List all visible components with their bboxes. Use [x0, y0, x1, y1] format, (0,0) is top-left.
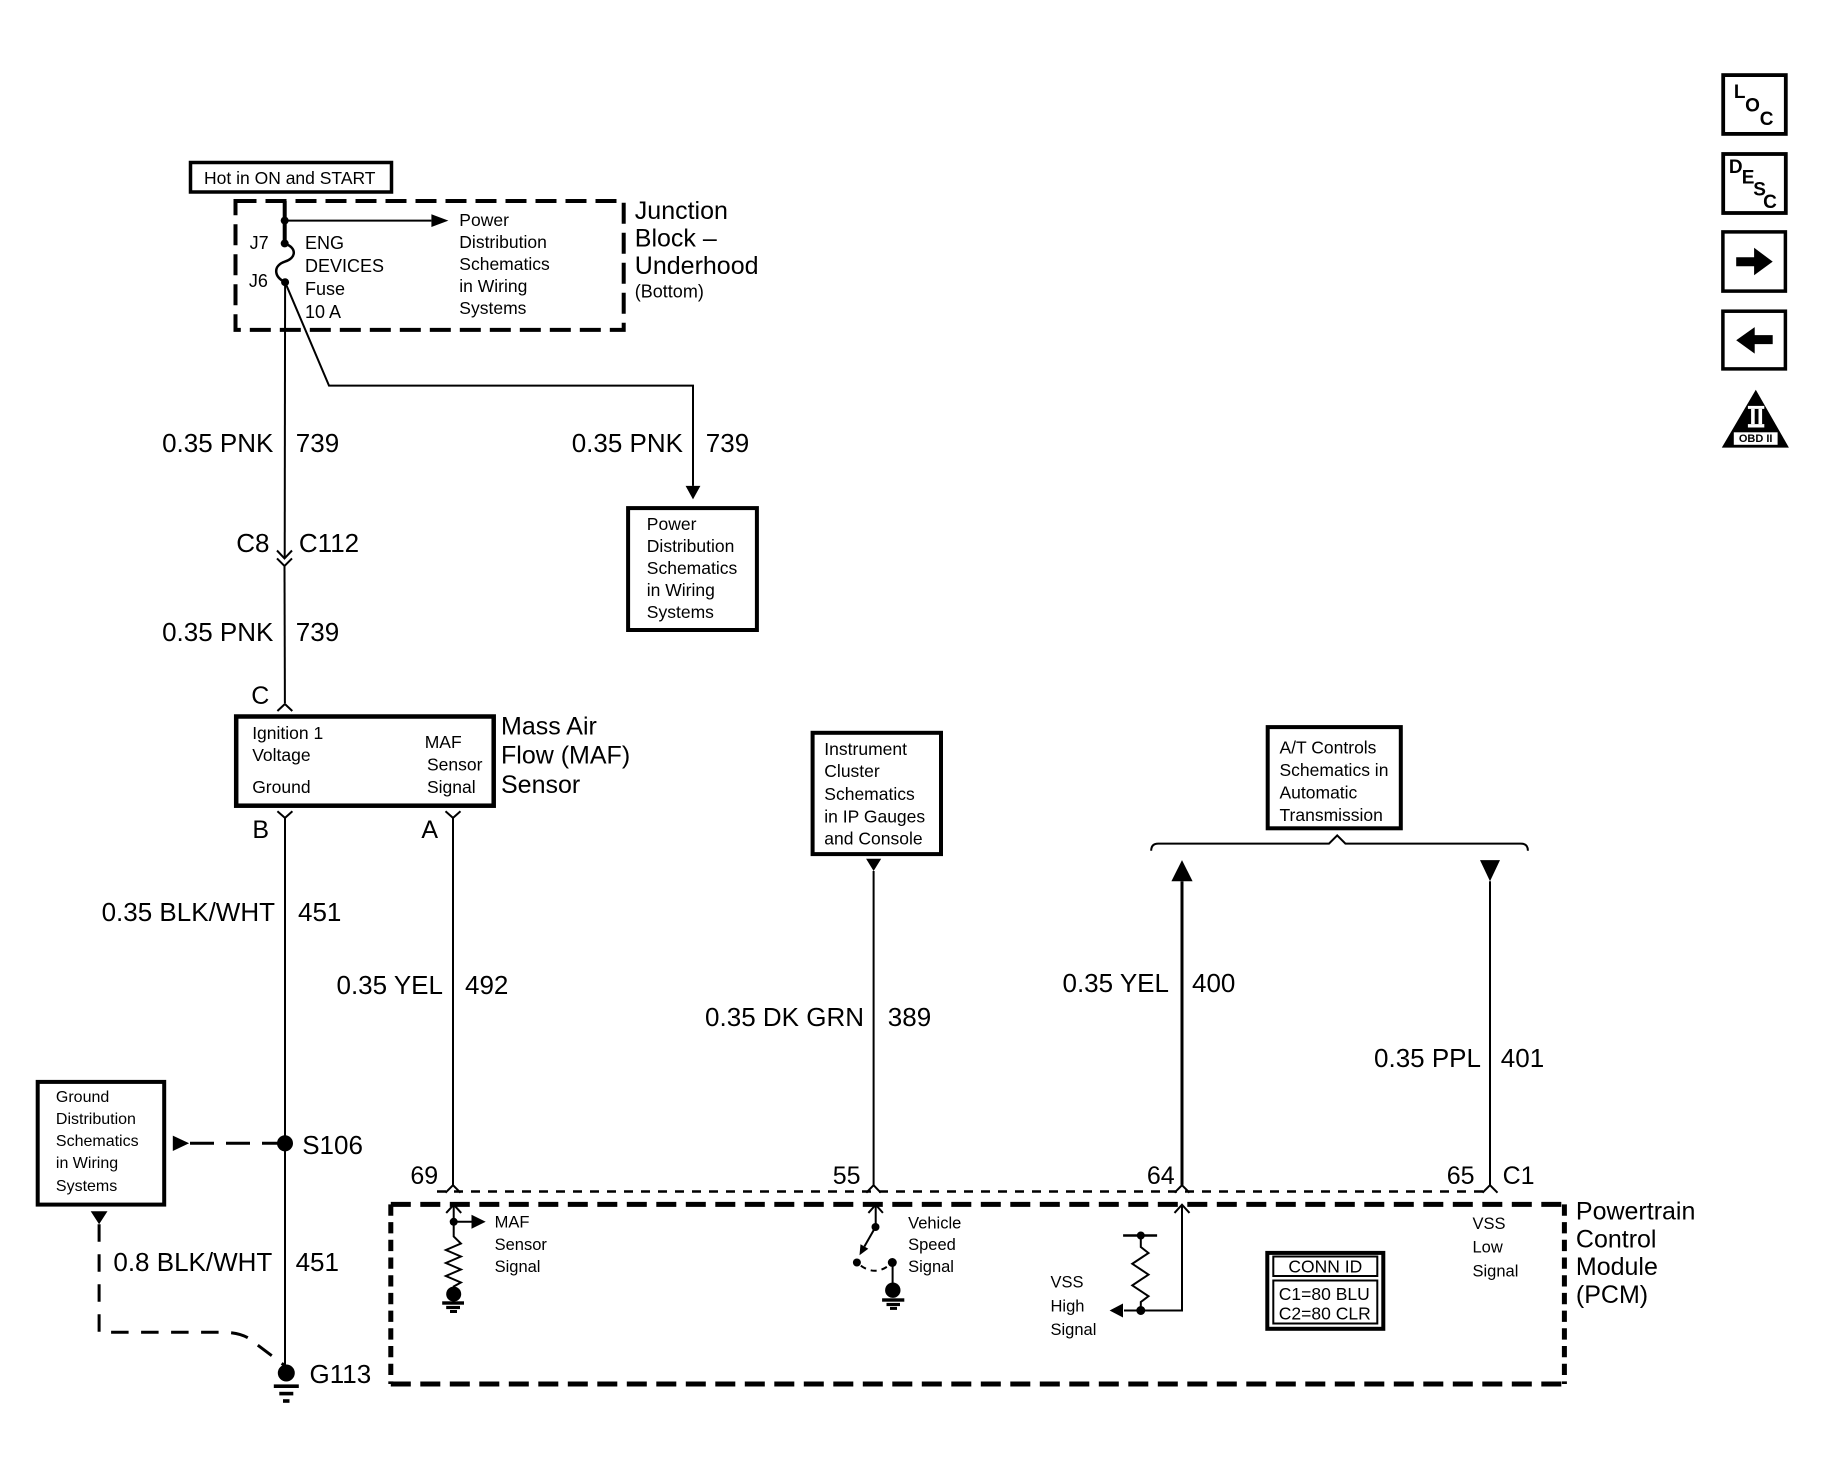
label: 0.35 DK GRN 389	[705, 1002, 931, 1032]
wire: MAF ground B to S106 to G113 (451)	[284, 818, 286, 1369]
svg-text:0.35 DK GRN: 0.35 DK GRN	[705, 1002, 864, 1032]
fuse: ENG DEVICES Fuse 10 A	[276, 243, 294, 282]
svg-text:Ground: Ground	[56, 1089, 109, 1106]
svg-text:D: D	[1729, 157, 1743, 178]
svg-text:55: 55	[833, 1162, 861, 1190]
svg-text:Speed: Speed	[908, 1236, 956, 1254]
ground: vehicle speed switch internal ground	[882, 1283, 904, 1310]
wire: bus feed from top of junction block to J7	[283, 201, 287, 243]
svg-text:10 A: 10 A	[305, 302, 341, 322]
svg-text:in Wiring: in Wiring	[459, 276, 527, 296]
junction block dashed box	[236, 201, 624, 330]
label: 0.35 BLK/WHT 451	[102, 897, 342, 927]
svg-text:0.35 PNK: 0.35 PNK	[162, 617, 274, 647]
svg-text:MAF: MAF	[425, 732, 462, 752]
svg-text:C1=80 BLU: C1=80 BLU	[1279, 1284, 1370, 1304]
wire arrowhead into power distribution box	[686, 486, 701, 500]
svg-text:Schematics: Schematics	[647, 558, 738, 578]
svg-text:(PCM): (PCM)	[1576, 1281, 1648, 1309]
svg-text:739: 739	[296, 428, 339, 458]
node G113 ground dot	[278, 1365, 295, 1382]
svg-text:MAF: MAF	[495, 1214, 530, 1232]
svg-text:G113: G113	[310, 1359, 372, 1389]
thin dashed connector face line across PCM terminals	[437, 1190, 1490, 1193]
svg-text:Voltage: Voltage	[252, 745, 310, 765]
svg-text:401: 401	[1501, 1043, 1544, 1073]
ground: MAF signal internal ground	[442, 1287, 464, 1313]
svg-text:CONN ID: CONN ID	[1288, 1256, 1362, 1276]
svg-text:C1: C1	[1503, 1162, 1535, 1190]
svg-text:400: 400	[1192, 968, 1235, 998]
svg-text:ENG: ENG	[305, 233, 344, 253]
svg-text:Sensor: Sensor	[427, 755, 483, 775]
svg-text:DEVICES: DEVICES	[305, 256, 384, 276]
arrow from ground distribution box to S106	[173, 1136, 278, 1151]
icon: LOC button	[1723, 75, 1786, 134]
svg-text:Block –: Block –	[635, 225, 717, 253]
label: 0.35 PPL 401	[1374, 1043, 1544, 1073]
svg-text:492: 492	[465, 970, 508, 1000]
resistor: VSS high pull-up	[1123, 1232, 1157, 1311]
svg-text:Distribution: Distribution	[459, 232, 547, 252]
svg-text:Automatic: Automatic	[1280, 782, 1358, 802]
svg-text:0.35 YEL: 0.35 YEL	[336, 970, 443, 1000]
svg-text:Transmission: Transmission	[1280, 805, 1383, 825]
svg-text:in Wiring: in Wiring	[56, 1155, 118, 1172]
svg-text:C112: C112	[299, 528, 359, 558]
svg-text:Low: Low	[1473, 1239, 1503, 1257]
svg-text:Mass Air: Mass Air	[501, 713, 597, 741]
svg-text:Cluster: Cluster	[824, 761, 880, 781]
dashed link from ground distribution reference to G113	[99, 1224, 284, 1365]
MAF sensor box	[236, 717, 494, 806]
icon: OBD II symbol	[1722, 390, 1789, 448]
svg-text:389: 389	[888, 1002, 931, 1032]
reference box: Ground Distribution Schematics in Wiring Systems	[38, 1082, 165, 1205]
label: Power Distribution Schematics in Wiring Systems (junction block)	[459, 210, 550, 318]
svg-text:C: C	[251, 682, 269, 710]
pin B chevron	[277, 811, 292, 818]
svg-text:L: L	[1734, 82, 1746, 103]
svg-text:Schematics in: Schematics in	[1280, 760, 1389, 780]
reference box: Instrument Cluster Schematics in IP Gauges and Console	[813, 733, 941, 854]
terminal 64 chevron	[1175, 1185, 1190, 1193]
svg-text:in Wiring: in Wiring	[647, 580, 715, 600]
wire: J6 down to connector C112 (0.35 PNK 739)	[284, 282, 286, 558]
svg-text:Signal: Signal	[427, 777, 476, 797]
svg-text:65: 65	[1447, 1162, 1475, 1190]
pin C chevron	[277, 704, 292, 711]
label: 0.35 PNK 739 (second)	[162, 617, 339, 647]
icon: back arrow button	[1723, 311, 1786, 369]
PCM internal: MAF sensor signal input	[446, 1205, 486, 1229]
svg-text:Ground: Ground	[252, 777, 310, 797]
svg-text:High: High	[1051, 1297, 1085, 1315]
connector C8 / C112 in-line chevrons	[277, 551, 292, 566]
terminal 65 chevron	[1483, 1185, 1498, 1193]
svg-text:Distribution: Distribution	[56, 1111, 136, 1128]
svg-text:Vehicle: Vehicle	[908, 1214, 961, 1232]
svg-text:0.35 PNK: 0.35 PNK	[162, 428, 274, 458]
svg-text:C8: C8	[236, 528, 269, 558]
label: VSS High Signal	[1051, 1274, 1097, 1340]
svg-text:VSS: VSS	[1473, 1215, 1506, 1233]
svg-text:Junction: Junction	[635, 197, 728, 225]
icon: forward arrow button	[1723, 232, 1786, 291]
reference box: A/T Controls Schematics in Automatic Transmission	[1268, 727, 1401, 828]
svg-text:Systems: Systems	[647, 602, 714, 622]
wire: PCM terminal 64 to A/T controls (0.35 YEL 400)	[1181, 881, 1184, 1185]
PCM internal: vehicle speed signal switch	[853, 1205, 897, 1291]
label: Vehicle Speed Signal	[908, 1214, 961, 1276]
svg-text:0.35 PPL: 0.35 PPL	[1374, 1043, 1481, 1073]
PCM internal: VSS high signal input	[1110, 1205, 1190, 1318]
label: ENG DEVICES Fuse 10 A	[305, 233, 384, 322]
svg-text:B: B	[252, 816, 269, 844]
svg-text:Signal: Signal	[495, 1258, 541, 1276]
svg-text:Sensor: Sensor	[495, 1236, 548, 1254]
svg-text:and Console: and Console	[824, 829, 922, 849]
node: J7 dot	[281, 239, 289, 247]
resistor: MAF signal pull-down	[446, 1222, 461, 1290]
svg-text:O: O	[1745, 96, 1760, 117]
svg-text:Schematics: Schematics	[56, 1133, 139, 1150]
wire: MAF signal A to PCM terminal 69 (0.35 YEL 492)	[452, 818, 454, 1185]
label box: Hot in ON and START	[191, 163, 392, 193]
svg-text:Underhood: Underhood	[635, 252, 759, 280]
svg-text:C: C	[1763, 192, 1777, 213]
svg-text:OBD II: OBD II	[1739, 433, 1773, 445]
svg-text:0.35 BLK/WHT: 0.35 BLK/WHT	[102, 897, 276, 927]
reference box: Power Distribution Schematics in Wiring Systems	[628, 508, 757, 630]
svg-text:Power: Power	[459, 210, 509, 230]
arrow below ground distribution box	[91, 1211, 108, 1224]
PCM dashed box	[391, 1204, 1565, 1384]
svg-text:451: 451	[298, 897, 341, 927]
label: MAF Sensor Signal	[495, 1214, 548, 1277]
terminal 55 chevron	[866, 1185, 880, 1193]
svg-text:Module: Module	[1576, 1253, 1658, 1281]
svg-text:69: 69	[410, 1162, 438, 1190]
svg-text:Signal: Signal	[1473, 1262, 1519, 1280]
label: Powertrain Control Module (PCM)	[1576, 1197, 1696, 1309]
terminal 69 chevron	[446, 1185, 461, 1193]
svg-text:Flow (MAF): Flow (MAF)	[501, 742, 630, 770]
svg-text:Control: Control	[1576, 1225, 1657, 1253]
arrowhead up on wire 400	[1171, 860, 1192, 881]
svg-text:0.35 PNK: 0.35 PNK	[572, 428, 684, 458]
label: 0.35 YEL 400	[1062, 968, 1235, 998]
ground symbol G113	[274, 1384, 299, 1402]
svg-text:451: 451	[296, 1247, 339, 1277]
svg-text:Power: Power	[647, 514, 697, 534]
brace under A/T controls box	[1151, 835, 1528, 850]
svg-text:S106: S106	[302, 1130, 363, 1160]
svg-text:Schematics: Schematics	[824, 784, 915, 804]
wire: A/T controls to PCM terminal 65 (0.35 PPL 401)	[1489, 881, 1491, 1185]
arrowhead down on wire 401	[1480, 860, 1500, 881]
svg-text:A/T Controls: A/T Controls	[1280, 738, 1377, 758]
svg-text:Powertrain: Powertrain	[1576, 1197, 1696, 1225]
svg-text:Fuse: Fuse	[305, 279, 345, 299]
node: bus junction dot	[281, 217, 289, 225]
svg-text:Distribution: Distribution	[647, 536, 735, 556]
svg-text:0.8 BLK/WHT: 0.8 BLK/WHT	[113, 1247, 272, 1277]
svg-text:Signal: Signal	[908, 1258, 954, 1276]
icon: DESC button	[1723, 154, 1786, 213]
svg-text:(Bottom): (Bottom)	[635, 282, 704, 302]
label: 0.35 YEL 492	[336, 970, 508, 1000]
svg-text:0.35 YEL: 0.35 YEL	[1062, 968, 1169, 998]
arrowhead below instrument cluster box	[866, 859, 881, 871]
svg-text:64: 64	[1147, 1162, 1175, 1190]
svg-text:Systems: Systems	[459, 298, 526, 318]
pin A chevron	[446, 811, 461, 818]
wire: instrument cluster to PCM terminal 55 (0.35 DK GRN 389)	[873, 871, 875, 1185]
svg-text:A: A	[421, 816, 438, 844]
svg-text:in IP Gauges: in IP Gauges	[824, 806, 925, 826]
node S106	[277, 1135, 293, 1151]
svg-text:739: 739	[706, 428, 749, 458]
svg-text:739: 739	[296, 617, 339, 647]
svg-text:Signal: Signal	[1051, 1321, 1097, 1339]
label: 0.35 PNK 739 (right)	[572, 428, 749, 458]
svg-text:Ignition 1: Ignition 1	[252, 723, 323, 743]
svg-text:J7: J7	[250, 233, 269, 253]
CONN ID table	[1267, 1253, 1383, 1329]
svg-text:Instrument: Instrument	[824, 739, 907, 759]
svg-text:Sensor: Sensor	[501, 771, 580, 799]
svg-text:VSS: VSS	[1051, 1274, 1084, 1292]
label: Junction Block - Underhood (Bottom)	[635, 197, 759, 302]
svg-text:Systems: Systems	[56, 1178, 117, 1195]
wire: C112 to MAF sensor pin C	[284, 566, 286, 703]
label: Mass Air Flow (MAF) Sensor	[501, 713, 630, 799]
svg-text:C: C	[1760, 109, 1774, 130]
node: J6 dot	[281, 278, 289, 286]
label: 0.8 BLK/WHT 451	[113, 1247, 339, 1277]
label: 0.35 PNK 739 (left)	[162, 428, 339, 458]
svg-text:Schematics: Schematics	[459, 254, 550, 274]
wire: J6 diagonal branch to power distribution reference	[285, 282, 693, 486]
svg-text:J6: J6	[249, 271, 268, 291]
svg-text:Hot in ON and START: Hot in ON and START	[204, 168, 376, 188]
label: VSS Low Signal	[1473, 1215, 1519, 1280]
svg-text:C2=80 CLR: C2=80 CLR	[1279, 1303, 1371, 1323]
wire: arrow to Power Distribution Schematics reference	[285, 214, 449, 227]
